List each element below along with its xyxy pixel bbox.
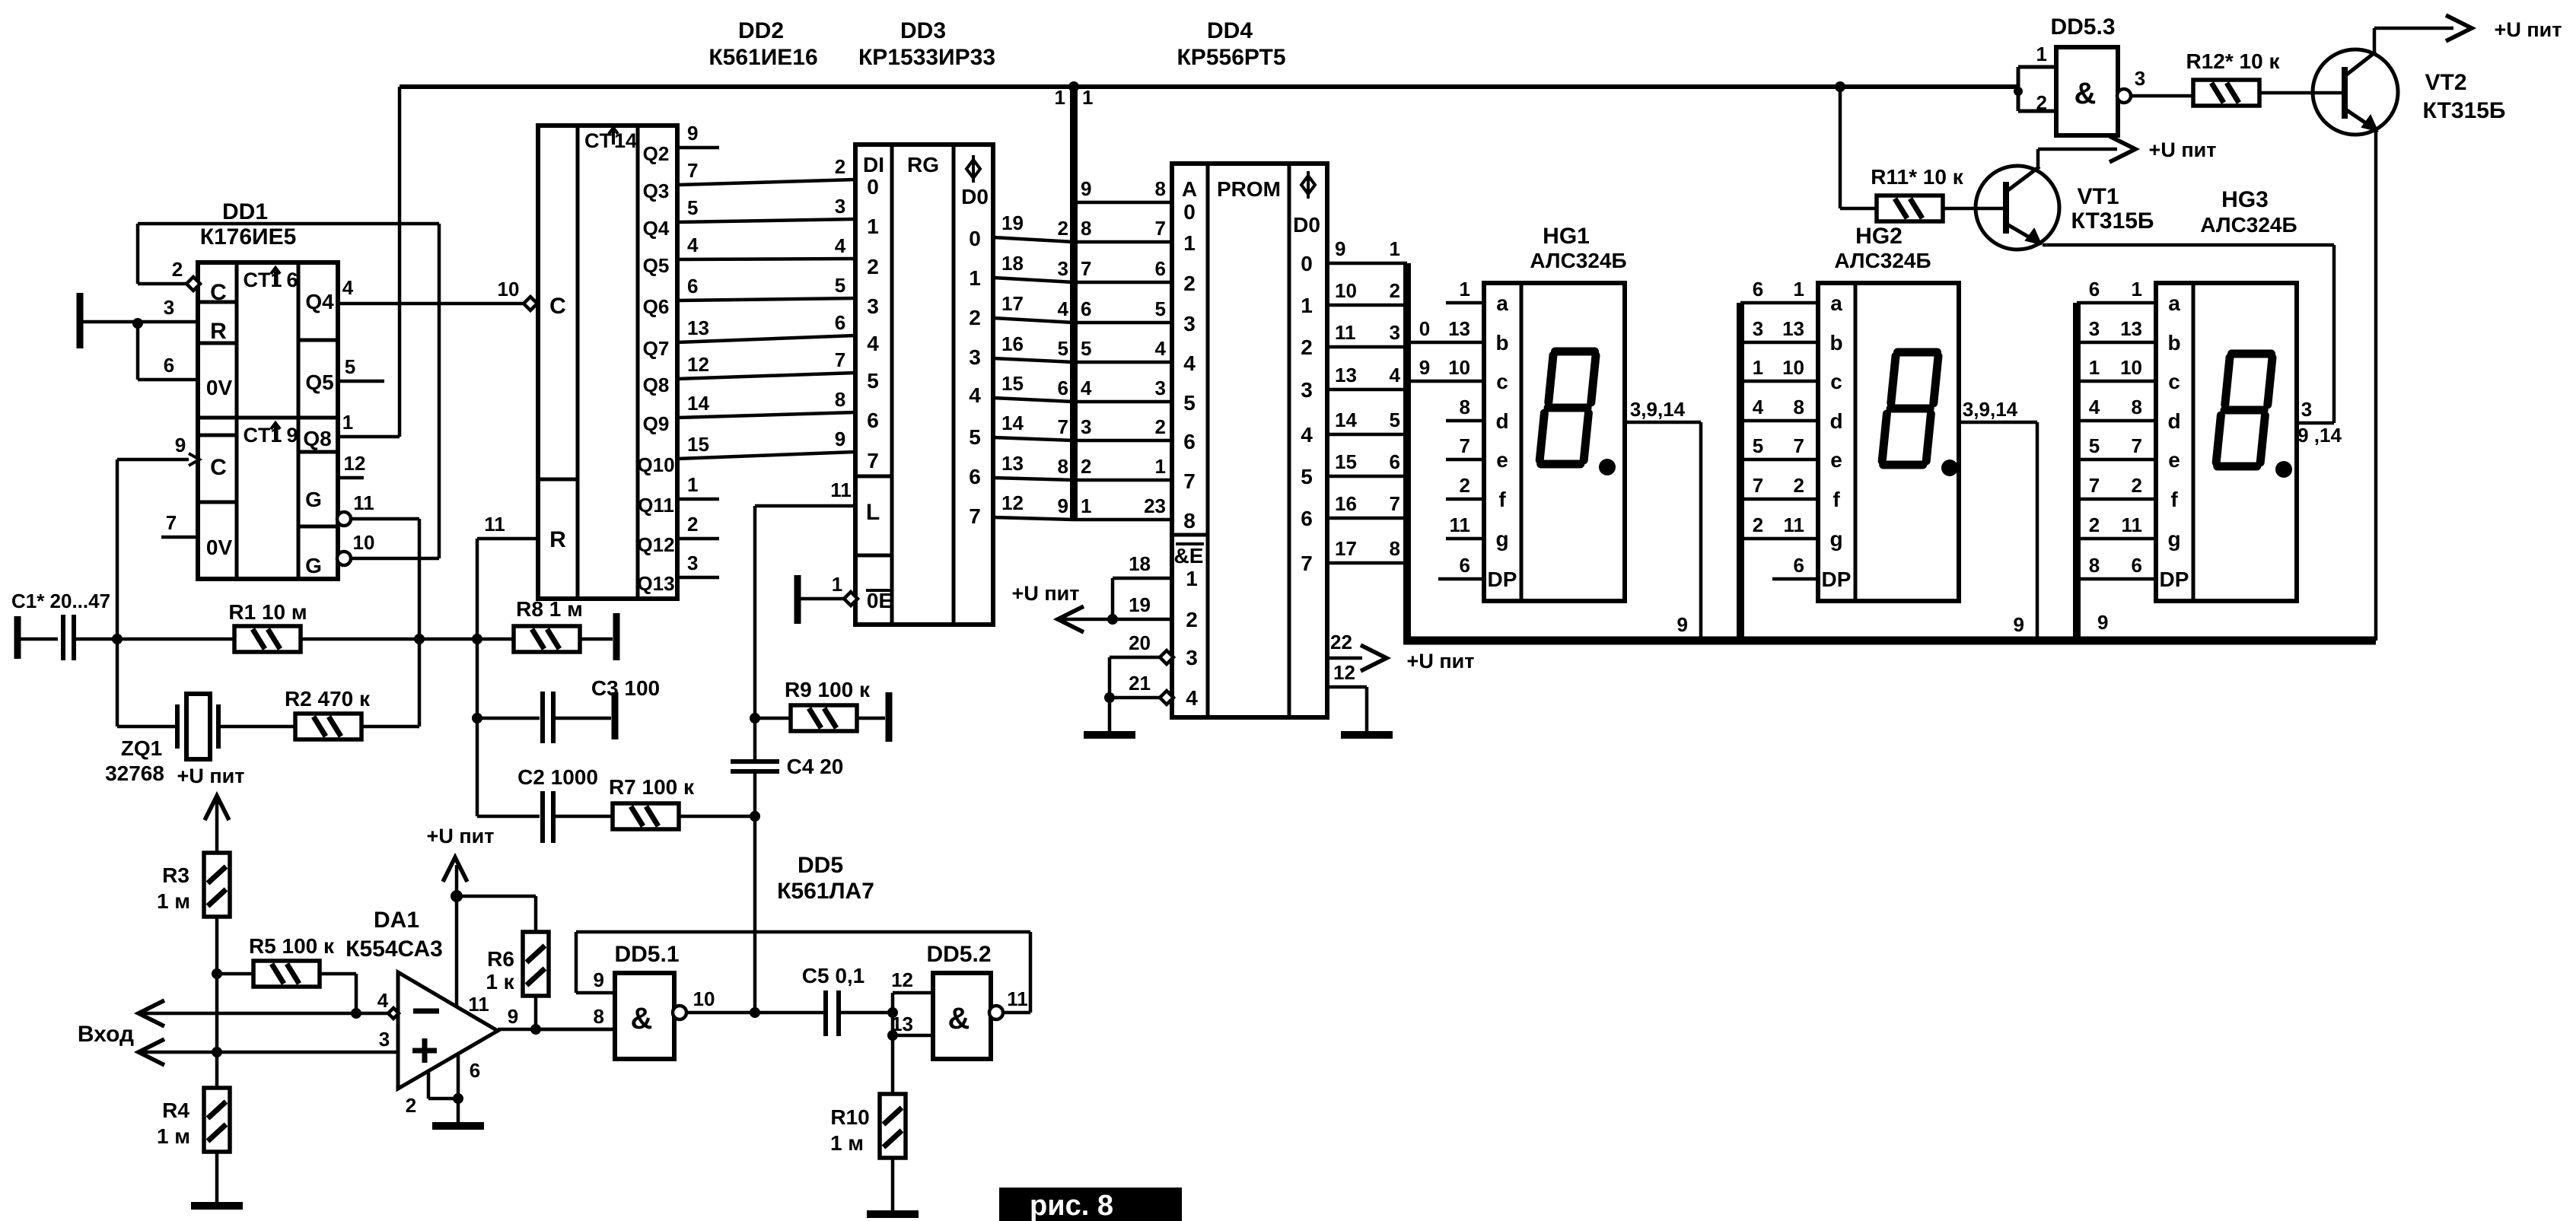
wire VT1 collector up	[2036, 149, 2040, 167]
wire HG3 segment d	[2077, 419, 2156, 423]
svg-text:c: c	[1830, 370, 1842, 393]
svg-text:5: 5	[1155, 297, 1166, 320]
svg-text:R1 10 м: R1 10 м	[228, 600, 307, 624]
svg-text:e: e	[1496, 448, 1508, 472]
svg-text:6: 6	[1081, 297, 1091, 320]
wire DD2 Q10 to DD3 DI7	[677, 452, 855, 459]
wire to C3	[477, 717, 540, 720]
svg-text:6: 6	[1183, 430, 1196, 453]
clock marker DD2 C input	[524, 297, 537, 310]
svg-text:6: 6	[2132, 554, 2142, 577]
svg-text:7: 7	[2089, 474, 2100, 497]
svg-text:2: 2	[1753, 514, 1763, 536]
svg-text:8: 8	[1390, 537, 1400, 560]
svg-text:d: d	[1495, 409, 1508, 433]
svg-text:0: 0	[1183, 200, 1196, 224]
wire VT1 collector to +U	[2038, 148, 2117, 151]
wire HG1 segment g	[1446, 537, 1484, 541]
register DD3 KR1533IR33	[855, 145, 993, 625]
terminal bar at DD1 pin 3	[77, 293, 84, 348]
svg-text:7: 7	[1058, 415, 1068, 438]
svg-text:R3: R3	[162, 863, 189, 887]
wire DD4 pin 15 to bus	[1327, 475, 1407, 479]
svg-text:4: 4	[1301, 423, 1313, 447]
svg-text:0: 0	[1419, 317, 1430, 340]
junction rail to DD5.3	[2014, 87, 2023, 96]
wire to C1	[18, 638, 58, 641]
digit HG3	[2216, 354, 2272, 466]
wire to R10	[891, 1035, 895, 1094]
wire VT2 collector to +U	[2374, 27, 2453, 30]
decimal point HG2	[1941, 459, 1958, 476]
svg-text:5: 5	[1390, 409, 1400, 431]
wire top rail from DD1 Q8 to DD5.3 inputs	[400, 84, 2018, 89]
junction R1/R2/pin11	[414, 634, 425, 644]
junction R5 tap	[212, 968, 222, 979]
terminal bar C1 input	[14, 616, 21, 659]
wire ZQ1 to R2	[218, 725, 295, 729]
svg-text:0E: 0E	[867, 589, 893, 612]
svg-text:5: 5	[1753, 434, 1763, 457]
svg-text:DP: DP	[2160, 568, 2189, 591]
svg-text:11: 11	[1335, 321, 1356, 344]
wire pin20 drop	[1108, 657, 1112, 698]
svg-text:7: 7	[2132, 434, 2142, 457]
svg-text:1 м: 1 м	[830, 1131, 864, 1155]
svg-text:23: 23	[1144, 494, 1166, 517]
wire HG1 segment c	[1407, 380, 1484, 383]
svg-text:R11* 10 к: R11* 10 к	[1871, 165, 1963, 189]
svg-text:6: 6	[470, 1059, 480, 1082]
svg-text:К561ИЕ16: К561ИЕ16	[708, 45, 817, 70]
svg-text:12: 12	[1001, 491, 1024, 514]
wire C3 to bar	[553, 717, 611, 720]
svg-text:17: 17	[1001, 292, 1024, 315]
svg-text:5: 5	[345, 355, 355, 378]
svg-text:13: 13	[1001, 452, 1024, 475]
bus line HG2	[1737, 303, 1744, 641]
svg-text:R: R	[549, 527, 566, 552]
digit HG2	[1882, 352, 1938, 465]
transistor VT1 KT315B	[1976, 166, 2059, 250]
svg-text:HG3: HG3	[2221, 187, 2269, 212]
svg-text:8: 8	[1794, 396, 1804, 418]
wire DD4 pin 11 to bus	[1327, 345, 1407, 349]
svg-text:1: 1	[687, 473, 698, 496]
wire pin3 to pin6	[136, 323, 140, 380]
svg-text:9 ,14: 9 ,14	[2297, 424, 2342, 447]
wire HG1 common drop	[1699, 422, 1703, 641]
wire Q12 stub	[677, 537, 719, 541]
ground DA1	[432, 1122, 484, 1130]
wire DD2 Q4 to DD3 DI1	[677, 219, 855, 222]
svg-text:DD5: DD5	[798, 853, 843, 878]
svg-text:11: 11	[484, 513, 505, 536]
wire to ground	[1108, 698, 1112, 732]
svg-text:9: 9	[508, 1005, 518, 1028]
capacitor C2	[543, 791, 553, 843]
indicator HG2 ALS324B	[1818, 283, 1959, 601]
svg-text:4: 4	[342, 276, 354, 299]
junction C1 node	[112, 634, 123, 644]
svg-text:3,9,14: 3,9,14	[1963, 398, 2018, 421]
svg-text:3: 3	[1183, 312, 1196, 335]
wire pin10 G output to feedback	[351, 557, 439, 561]
bus line segment signals	[1403, 263, 1411, 641]
wire pin20 to CE3	[1110, 656, 1161, 660]
resistor R8	[514, 626, 580, 652]
wire Q8 to top rail	[398, 87, 402, 437]
arrow input 1	[139, 1000, 164, 1026]
svg-text:АЛС324Б: АЛС324Б	[1530, 249, 1626, 272]
svg-text:15: 15	[687, 433, 709, 456]
ground DD4 left	[1084, 731, 1135, 739]
svg-text:c: c	[1496, 370, 1508, 393]
svg-text:&: &	[948, 1002, 970, 1035]
wire DD2 Q5 to DD3 DI2	[677, 259, 855, 259]
wire DD3 pin 15 to bus	[993, 398, 1074, 402]
svg-text:8: 8	[1460, 396, 1470, 418]
svg-text:3: 3	[969, 345, 981, 369]
svg-text:22: 22	[1330, 631, 1352, 653]
svg-text:7: 7	[1460, 434, 1470, 457]
svg-text:1: 1	[1794, 278, 1804, 300]
svg-text:DD5.1: DD5.1	[614, 942, 679, 967]
wire DD3 pin 16 to bus	[993, 358, 1074, 362]
svg-text:ZQ1: ZQ1	[121, 736, 162, 760]
svg-text:7: 7	[867, 449, 879, 472]
svg-text:R8 1 м: R8 1 м	[516, 597, 583, 621]
wire DD4 pin 13 to bus	[1327, 388, 1407, 392]
svg-text:R12* 10 к: R12* 10 к	[2186, 49, 2281, 73]
wire DD5.2 pin12	[893, 991, 933, 995]
svg-text:C4 20: C4 20	[787, 755, 844, 778]
svg-text:3: 3	[164, 296, 174, 319]
svg-text:К554СА3: К554СА3	[345, 936, 443, 962]
svg-text:21: 21	[1129, 672, 1151, 695]
junction input divider	[212, 1047, 222, 1057]
inversion bubble pin 10	[337, 552, 351, 565]
gate DD5.3	[2018, 47, 2118, 135]
svg-text:4: 4	[377, 989, 389, 1012]
svg-text:3: 3	[867, 294, 879, 318]
wire HG3 segment c	[2077, 380, 2156, 383]
wire feedback top	[576, 930, 1030, 934]
wire Q5 stub	[338, 380, 384, 383]
svg-text:6: 6	[1155, 257, 1166, 280]
svg-text:Q10: Q10	[637, 453, 674, 476]
svg-text:5: 5	[1081, 337, 1091, 360]
wire DA1 pin2	[427, 1071, 431, 1099]
wire HG3 segment b	[2077, 341, 2156, 345]
svg-text:3,9,14: 3,9,14	[1630, 398, 1686, 421]
junction pin4 net	[351, 1008, 361, 1019]
svg-text:КР556РТ5: КР556РТ5	[1177, 45, 1286, 70]
PROM DD4 KR556RT5	[1172, 164, 1327, 717]
wire DD3 L input	[755, 504, 855, 508]
svg-text:9: 9	[286, 424, 298, 447]
wire R10 to ground	[891, 1158, 895, 1213]
svg-text:1 м: 1 м	[157, 1124, 190, 1148]
svg-text:R9 100 к: R9 100 к	[785, 678, 871, 701]
svg-text:+U пит: +U пит	[427, 825, 495, 847]
svg-text:6: 6	[1058, 377, 1068, 399]
wire DD3 L down to C4	[753, 506, 757, 759]
wire to R9	[755, 717, 791, 720]
svg-text:9: 9	[1335, 237, 1345, 260]
svg-text:КТ315Б: КТ315Б	[2423, 98, 2506, 123]
svg-text:7: 7	[1794, 434, 1804, 457]
resistor R7	[613, 803, 679, 829]
svg-text:4: 4	[1183, 351, 1196, 375]
wire to C2	[477, 815, 540, 819]
wire pin9 C input	[117, 458, 198, 462]
wire to +U arrow	[455, 865, 459, 896]
wire HG3 segment a	[2077, 301, 2156, 305]
wire pin12/13 link	[891, 993, 895, 1035]
svg-text:c: c	[2168, 370, 2180, 393]
wire R8 to bar	[580, 638, 613, 641]
svg-text:6: 6	[1460, 554, 1470, 577]
svg-text:DA1: DA1	[374, 908, 419, 933]
wire HG2 segment e	[1740, 458, 1818, 462]
wire DD4 pin 9 to bus	[1327, 262, 1407, 266]
wire VT2 emitter to common bus	[2374, 131, 2378, 641]
svg-text:4: 4	[1186, 686, 1198, 710]
svg-text:3: 3	[1753, 317, 1763, 340]
svg-text:4: 4	[1058, 297, 1069, 320]
wire DD4 pin18 to CE1	[1113, 577, 1172, 580]
svg-text:DD5.2: DD5.2	[926, 942, 991, 967]
resistor R6	[523, 932, 549, 996]
svg-text:6: 6	[1794, 554, 1804, 577]
wire DD3 pin 18 to bus	[993, 278, 1074, 282]
svg-text:5: 5	[969, 425, 981, 449]
junction rail to R11	[1835, 81, 1845, 92]
svg-text:18: 18	[1129, 552, 1151, 575]
wire bus to DD4 pin 8	[1074, 201, 1172, 205]
svg-text:b: b	[1495, 331, 1508, 355]
svg-text:b: b	[2167, 331, 2180, 355]
svg-text:11: 11	[353, 491, 374, 514]
svg-text:+U пит: +U пит	[2149, 138, 2217, 161]
wire to R11	[1840, 207, 1877, 211]
svg-text:C3 100: C3 100	[591, 676, 660, 700]
svg-text:К176ИЕ5: К176ИЕ5	[200, 224, 297, 250]
svg-text:G: G	[305, 554, 322, 577]
svg-text:e: e	[1830, 448, 1842, 472]
junction CE pins	[1107, 614, 1118, 625]
svg-text:1 м: 1 м	[157, 889, 190, 913]
resistor R11	[1877, 196, 1943, 221]
svg-text:3: 3	[1155, 377, 1166, 399]
wire bus to DD4 pin 3	[1074, 400, 1172, 404]
wire bus to DD4 pin 2	[1074, 439, 1172, 443]
arrow +U VT2	[2446, 15, 2472, 41]
svg-text:e: e	[2168, 448, 2180, 472]
svg-text:16: 16	[1335, 492, 1357, 515]
svg-text:3: 3	[1058, 257, 1068, 280]
svg-text:16: 16	[1001, 332, 1024, 355]
svg-text:4: 4	[1081, 377, 1092, 399]
svg-text:9: 9	[594, 968, 604, 991]
svg-text:14: 14	[687, 392, 709, 415]
wire HG1 segment a	[1446, 301, 1484, 305]
svg-text:4: 4	[2089, 396, 2100, 418]
svg-text:Q13: Q13	[637, 572, 674, 595]
wire feedback top	[138, 222, 439, 226]
arrow +U VT1	[2110, 136, 2135, 162]
svg-text:4: 4	[835, 234, 846, 257]
svg-text:7: 7	[1081, 257, 1091, 280]
svg-text:13: 13	[1448, 317, 1470, 340]
svg-text:рис. 8: рис. 8	[1030, 1190, 1113, 1221]
arrow pin22 to +U	[1361, 645, 1387, 671]
svg-text:DD2: DD2	[738, 18, 784, 43]
svg-text:КР1533ИР33: КР1533ИР33	[858, 45, 995, 70]
svg-text:a: a	[2168, 291, 2180, 315]
wire DD2 Q7 to DD3 DI4	[677, 335, 855, 342]
svg-text:2: 2	[1155, 415, 1166, 438]
resistor R2	[295, 714, 361, 739]
wire HG2 segment f	[1740, 498, 1818, 501]
svg-text:f: f	[1832, 488, 1840, 511]
svg-text:2: 2	[172, 258, 183, 281]
wire R5 out	[320, 972, 356, 976]
wire HG2 segment g	[1740, 537, 1818, 541]
junction pin21	[1104, 692, 1115, 703]
svg-text:14: 14	[1001, 412, 1024, 434]
terminal bar R8	[613, 613, 620, 660]
inversion bubble DD5.2	[989, 1006, 1003, 1019]
svg-text:6: 6	[1390, 450, 1400, 473]
wire vertical C1/ZQ1 branch	[116, 459, 119, 727]
wire DD4 pin 14 to bus	[1327, 433, 1407, 437]
wire C4 to DD5.1 output node	[753, 771, 757, 1013]
junction DD2 R node	[472, 634, 482, 644]
svg-text:1: 1	[1186, 567, 1198, 590]
wire C1 to junction	[74, 638, 117, 641]
decimal point HG1	[1599, 459, 1616, 475]
svg-text:17: 17	[1335, 537, 1357, 560]
wire pin18 drop	[1111, 578, 1115, 619]
svg-text:6: 6	[1301, 507, 1313, 530]
svg-text:2: 2	[1460, 474, 1470, 497]
wire DD5.2 pin13	[893, 1034, 933, 1038]
junction DA1 gnd	[453, 1093, 463, 1104]
svg-text:Q4: Q4	[643, 217, 670, 240]
svg-text:13: 13	[1335, 364, 1357, 386]
transistor VT2 KT315B	[2313, 49, 2398, 135]
svg-text:1: 1	[1301, 294, 1313, 317]
svg-text:11: 11	[2122, 514, 2143, 536]
svg-text:1: 1	[2089, 356, 2100, 379]
svg-text:14: 14	[1335, 409, 1357, 431]
resistor R5	[253, 961, 320, 987]
svg-text:9: 9	[1081, 177, 1091, 200]
svg-text:1: 1	[1081, 494, 1091, 517]
wire DA1 output to DD5.1	[498, 1028, 615, 1032]
clock marker DD1 pin2	[186, 277, 200, 291]
svg-text:1: 1	[969, 266, 981, 290]
svg-text:DP: DP	[1488, 568, 1517, 591]
svg-text:3: 3	[2301, 398, 2312, 421]
svg-text:2: 2	[2036, 91, 2047, 114]
svg-text:G: G	[305, 488, 322, 511]
svg-text:&: &	[2074, 77, 2097, 110]
wire HG3 segment e	[2077, 458, 2156, 462]
svg-text:4: 4	[969, 383, 981, 407]
svg-text:6: 6	[286, 269, 298, 291]
svg-text:32768: 32768	[105, 762, 164, 785]
inversion bubble pin 11	[337, 512, 351, 526]
wire bus to DD4 pin 6	[1074, 281, 1172, 285]
svg-text:g: g	[1829, 527, 1842, 551]
wire drop to HG3 common	[2332, 245, 2336, 423]
svg-text:1: 1	[832, 573, 842, 596]
wire VT1 emitter to HG3 common	[2043, 243, 2334, 247]
wire HG1 segment DP	[1438, 577, 1484, 581]
wire HG1 common	[1624, 421, 1701, 424]
svg-text:7: 7	[1155, 217, 1166, 240]
marker DA1 pin4	[388, 1008, 399, 1019]
svg-text:15: 15	[1001, 372, 1024, 395]
capacitor C4	[731, 762, 779, 771]
svg-text:PROM: PROM	[1217, 177, 1281, 201]
svg-text:2: 2	[1081, 455, 1091, 478]
resistor R4	[204, 1088, 230, 1152]
bus line DD3 to DD4	[1070, 87, 1078, 520]
wire HG2 common drop	[2036, 422, 2039, 641]
svg-text:9: 9	[1058, 494, 1068, 517]
wire +U to CE2	[1058, 618, 1172, 622]
svg-text:3: 3	[1186, 646, 1198, 669]
svg-text:1: 1	[1460, 278, 1470, 300]
svg-text:3: 3	[2135, 67, 2145, 90]
svg-text:7: 7	[835, 348, 845, 371]
svg-text:1: 1	[1753, 356, 1763, 379]
svg-text:&E: &E	[1174, 544, 1204, 568]
svg-text:D0: D0	[961, 185, 989, 208]
wire R3 to R4	[215, 917, 219, 1088]
svg-text:DP: DP	[1822, 568, 1852, 591]
svg-text:7: 7	[1390, 492, 1400, 515]
svg-text:HG1: HG1	[1543, 224, 1590, 249]
svg-text:13: 13	[2120, 317, 2142, 340]
svg-text:1: 1	[2036, 43, 2047, 65]
wire to ZQ1	[117, 725, 177, 729]
wire DD2 Q9 to DD3 DI6	[677, 412, 855, 418]
ground DD4 right	[1341, 731, 1393, 739]
resistor R10	[880, 1094, 906, 1158]
wire DD3 OE input	[798, 597, 849, 601]
svg-text:1: 1	[1055, 86, 1065, 109]
comparator DA1 K554SA3	[398, 972, 498, 1089]
svg-text:0: 0	[867, 175, 879, 199]
wire feedback right vertical	[438, 224, 441, 558]
svg-text:3: 3	[835, 195, 845, 218]
wire DD5.1 pin8	[536, 1028, 615, 1032]
wire pin11 down to R1/R2 node	[418, 519, 422, 727]
terminal bar DD3 OE	[794, 575, 801, 624]
arrow input 2	[139, 1039, 164, 1065]
svg-text:C2 1000: C2 1000	[517, 765, 598, 789]
svg-text:20: 20	[1129, 631, 1151, 654]
svg-text:8: 8	[2132, 396, 2142, 418]
wire bus to DD4 pin 5	[1074, 321, 1172, 325]
svg-text:C: C	[210, 280, 227, 305]
svg-text:8: 8	[1081, 217, 1091, 240]
